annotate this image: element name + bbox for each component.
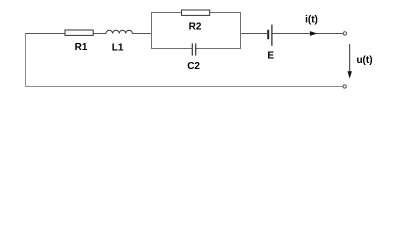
svg-text:L1: L1 [112, 43, 124, 54]
svg-text:E: E [267, 51, 274, 62]
svg-text:u(t): u(t) [356, 55, 372, 66]
svg-text:C2: C2 [187, 61, 200, 72]
svg-text:R2: R2 [189, 22, 202, 33]
svg-text:R1: R1 [75, 42, 88, 53]
svg-text:i(t): i(t) [305, 15, 318, 26]
